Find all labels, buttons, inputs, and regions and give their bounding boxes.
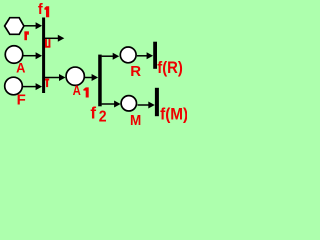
svg-text:f: f (90, 103, 96, 122)
place r (hexagon) (5, 18, 24, 35)
place R (120, 47, 136, 63)
svg-text:A: A (16, 60, 26, 76)
transition f(R) (153, 42, 157, 69)
svg-text:R: R (130, 63, 141, 80)
wire hexagon to f1 (24, 25, 37, 27)
svg-text:M: M (130, 112, 141, 129)
svg-text:2: 2 (99, 108, 107, 126)
arc R to f(R) (137, 55, 148, 57)
transition f2 (98, 55, 102, 107)
label r (24, 31, 27, 40)
wire F to f1 (23, 86, 37, 88)
arc f1 to A1 (45, 77, 60, 79)
arc f2 to R (102, 55, 114, 57)
place A (5, 46, 23, 64)
svg-text:F: F (17, 92, 26, 109)
wire A to f1 (23, 55, 37, 57)
transition f(M) (155, 88, 159, 116)
label U (45, 39, 47, 47)
label T (45, 79, 49, 81)
transition f1 (42, 18, 45, 94)
arc M to f(M) (138, 104, 150, 106)
svg-text:f: f (38, 2, 43, 18)
arc A1 to f2 (85, 77, 92, 79)
svg-text:f(M): f(M) (160, 105, 187, 124)
svg-text:A: A (73, 83, 81, 98)
place M (121, 96, 136, 111)
place A1 (66, 67, 84, 85)
svg-text:f(R): f(R) (157, 59, 183, 77)
arc f2 to M (102, 103, 115, 105)
arc f1 to U output (45, 37, 59, 39)
place F (5, 77, 23, 95)
